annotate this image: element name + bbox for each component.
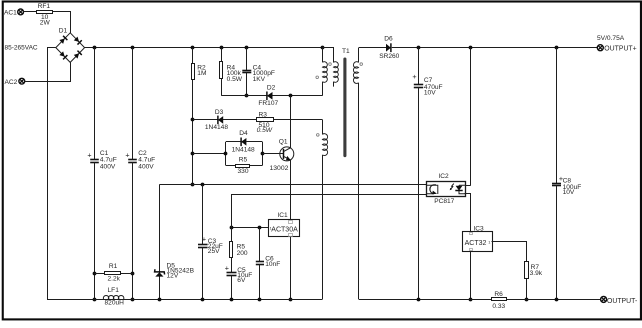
svg-text:+: + [125, 151, 129, 160]
svg-text:1M: 1M [197, 70, 206, 77]
svg-text:0.33: 0.33 [492, 303, 505, 310]
svg-text:+: + [225, 264, 229, 273]
svg-text:IC1: IC1 [277, 212, 288, 219]
svg-text:25V: 25V [208, 248, 220, 255]
svg-text:330: 330 [238, 168, 249, 175]
svg-text:200: 200 [237, 250, 248, 257]
svg-text:IC3: IC3 [473, 225, 484, 232]
svg-text:D4: D4 [239, 130, 248, 137]
svg-text:+: + [412, 72, 416, 81]
svg-text:13002: 13002 [270, 165, 289, 172]
svg-text:D1: D1 [59, 27, 68, 34]
svg-text:400V: 400V [138, 164, 154, 171]
svg-text:D2: D2 [267, 84, 276, 91]
svg-text:+: + [87, 151, 91, 160]
svg-text:3.9k: 3.9k [530, 270, 543, 277]
svg-text:5V/0.75A: 5V/0.75A [597, 35, 625, 42]
svg-text:ACT30A: ACT30A [271, 226, 298, 233]
svg-text:2.2k: 2.2k [108, 276, 121, 283]
svg-text:OUTPUT+: OUTPUT+ [604, 45, 636, 52]
svg-text:12V: 12V [167, 273, 179, 280]
svg-text:4.7uF: 4.7uF [100, 156, 117, 163]
svg-text:10V: 10V [424, 90, 436, 97]
svg-text:0.5W: 0.5W [257, 127, 273, 134]
svg-text:SR260: SR260 [379, 53, 399, 60]
svg-text:T1: T1 [342, 48, 350, 55]
svg-text:R6: R6 [494, 291, 503, 298]
svg-text:R5: R5 [239, 156, 248, 163]
svg-text:+: + [202, 234, 206, 243]
svg-text:FR107: FR107 [258, 100, 278, 107]
svg-text:6V: 6V [237, 277, 246, 284]
svg-text:OUTPUT-: OUTPUT- [607, 298, 637, 305]
svg-text:D6: D6 [384, 36, 393, 43]
svg-text:4.7uF: 4.7uF [138, 156, 155, 163]
svg-text:820uH: 820uH [105, 300, 125, 307]
svg-text:AC2: AC2 [5, 79, 18, 86]
svg-text:400V: 400V [100, 164, 116, 171]
svg-text:1N4148: 1N4148 [232, 146, 255, 153]
svg-text:ACT32: ACT32 [465, 240, 487, 247]
svg-text:D3: D3 [215, 109, 224, 116]
svg-text:AC1: AC1 [4, 9, 17, 16]
svg-text:10nF: 10nF [265, 261, 280, 268]
svg-text:RF1: RF1 [38, 3, 51, 10]
svg-text:2W: 2W [40, 20, 51, 27]
svg-text:PC817: PC817 [434, 198, 454, 205]
svg-text:R3: R3 [259, 112, 268, 119]
svg-text:R1: R1 [109, 263, 118, 270]
svg-text:0.5W: 0.5W [227, 76, 243, 83]
svg-text:IC2: IC2 [438, 173, 449, 180]
svg-text:85-265VAC: 85-265VAC [5, 45, 38, 52]
svg-text:1N4148: 1N4148 [205, 124, 228, 131]
svg-text:10V: 10V [563, 189, 575, 196]
svg-text:1KV: 1KV [253, 76, 266, 83]
svg-text:LF1: LF1 [108, 287, 120, 294]
svg-text:Q1: Q1 [279, 139, 288, 146]
